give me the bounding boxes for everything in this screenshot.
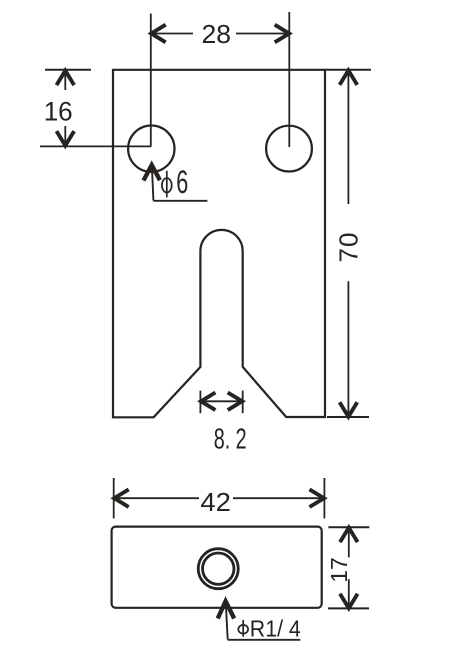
svg-text:R1/ 4: R1/ 4: [250, 616, 301, 642]
svg-text:42: 42: [200, 487, 231, 517]
svg-text:8. 2: 8. 2: [214, 424, 247, 456]
svg-text:6: 6: [176, 164, 188, 200]
svg-text:28: 28: [202, 19, 232, 49]
svg-text:70: 70: [333, 233, 363, 263]
svg-text:16: 16: [44, 96, 73, 126]
svg-text:17: 17: [326, 557, 352, 583]
